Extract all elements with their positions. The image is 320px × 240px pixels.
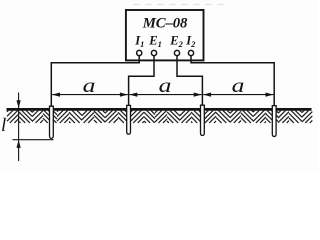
svg-text:E2: E2	[169, 33, 183, 49]
terminal E1	[151, 50, 156, 55]
terminal I2	[188, 50, 193, 55]
ground surface line	[7, 108, 312, 111]
wire I2 to electrode 4	[191, 56, 274, 107]
svg-text:I1: I1	[134, 33, 144, 49]
dimension line a (electrode 2 to 3)	[129, 93, 201, 97]
electrode 1	[50, 106, 54, 138]
device box U1 (MC-08 earth megger)	[126, 10, 204, 60]
electrode 4	[272, 106, 276, 137]
wire I1 to electrode 1	[51, 56, 139, 107]
electrode 2	[127, 105, 131, 134]
earth hatching	[7, 110, 312, 123]
svg-text:E1: E1	[148, 33, 162, 49]
electrode 3	[201, 105, 205, 135]
svg-text:a: a	[83, 75, 96, 97]
dimension line a (electrode 3 to 4)	[203, 93, 273, 97]
dimension line a (electrode 1 to 2)	[52, 93, 128, 97]
svg-text:МС–08: МС–08	[142, 16, 188, 32]
svg-text:I2: I2	[185, 33, 196, 49]
svg-text:a: a	[232, 75, 245, 97]
terminal I1	[137, 50, 142, 55]
terminal E2	[174, 50, 179, 55]
svg-text:l: l	[1, 115, 6, 136]
wire E1 to electrode 2	[129, 56, 154, 107]
dimension line l (electrode depth)	[17, 93, 21, 162]
extension line for electrode depth	[13, 139, 54, 141]
wire E2 to electrode 3	[177, 56, 202, 107]
svg-text:a: a	[159, 75, 172, 97]
